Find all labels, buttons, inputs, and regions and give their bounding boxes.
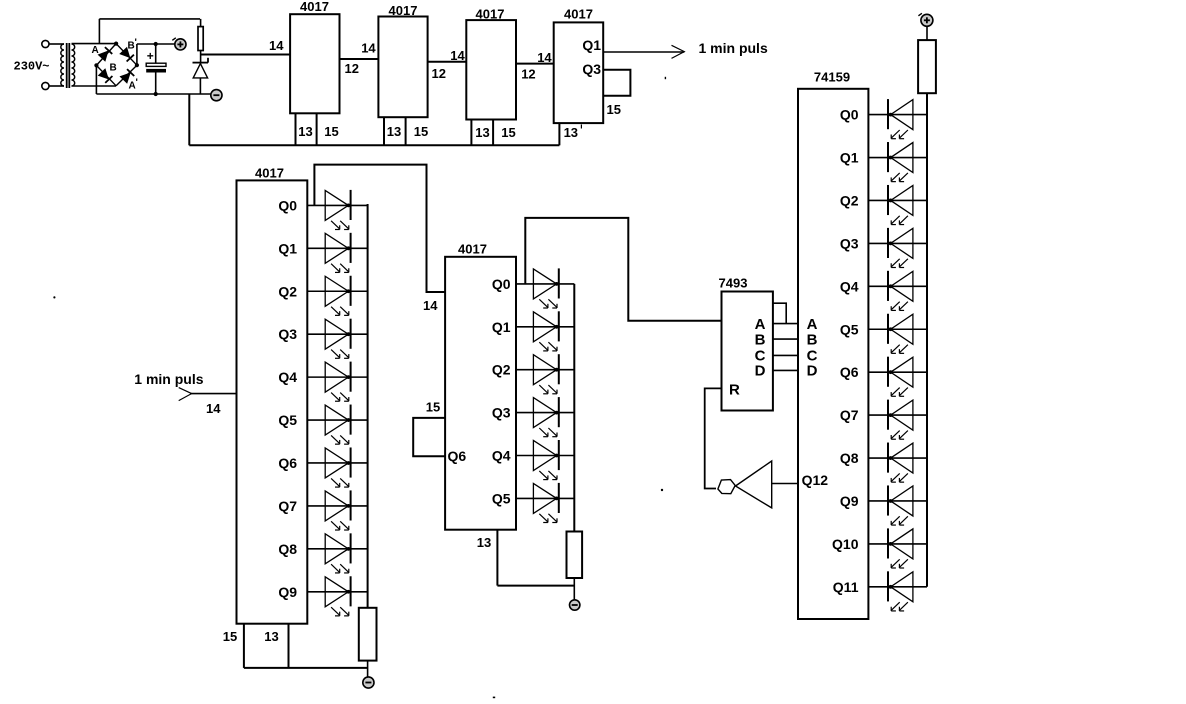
wire: [189, 144, 559, 146]
svg-text:Q2: Q2: [492, 362, 511, 378]
svg-text:Q6: Q6: [448, 448, 467, 464]
wire: [307, 462, 367, 464]
node: [154, 92, 158, 96]
svg-text:Q1: Q1: [492, 319, 511, 335]
wire: [516, 497, 574, 499]
pin 13 stub: [295, 113, 297, 145]
wire: [516, 369, 574, 371]
svg-text:Q2: Q2: [278, 283, 297, 299]
wire: [116, 44, 137, 66]
svg-text:Q4: Q4: [278, 369, 297, 385]
wire: [573, 578, 575, 600]
wire: [49, 85, 64, 87]
power +V: [918, 13, 933, 26]
wire: [98, 19, 100, 44]
svg-text:B: B: [755, 332, 766, 349]
wire: [868, 414, 927, 416]
diode A (bridge): [98, 47, 112, 61]
wire: [314, 165, 445, 292]
svg-text:13: 13: [387, 124, 401, 139]
LED D8: [325, 490, 350, 530]
wire: [773, 338, 798, 340]
LED D17: [888, 99, 913, 139]
wire: [525, 218, 721, 321]
LED D27: [888, 528, 913, 568]
LED D16: [533, 483, 558, 523]
wire: [72, 85, 117, 87]
svg-text:Q0: Q0: [492, 276, 511, 292]
wire: [773, 323, 798, 325]
wire: [116, 65, 137, 86]
zener D5: [193, 58, 209, 94]
IC U9 74159: [798, 89, 868, 619]
svg-text:A: A: [755, 316, 766, 333]
node bridge right: [135, 63, 139, 67]
svg-text:Q11: Q11: [833, 579, 859, 595]
wire: [307, 419, 367, 421]
svg-text:Q8: Q8: [840, 450, 859, 466]
LED D25: [888, 443, 913, 483]
svg-text:14: 14: [269, 38, 284, 53]
svg-text:74159: 74159: [814, 70, 850, 85]
node bridge left: [94, 63, 98, 67]
svg-text:14: 14: [206, 401, 221, 416]
wire: [188, 94, 190, 145]
IC U2 4017: [378, 17, 427, 118]
wire: [307, 290, 367, 292]
svg-text:12: 12: [521, 67, 535, 82]
svg-text:+: +: [147, 49, 154, 63]
LED D26: [888, 485, 913, 525]
bus: [367, 204, 369, 608]
svg-text:14: 14: [361, 41, 376, 56]
wire: [367, 661, 369, 678]
arrow head: [179, 388, 192, 401]
diode B (bridge): [98, 69, 112, 83]
wire: [201, 54, 291, 56]
wire: [773, 369, 798, 371]
wire: [926, 27, 928, 41]
svg-text:12: 12: [345, 61, 359, 76]
IC U1 4017: [290, 14, 339, 113]
pin 13 stub: [558, 123, 560, 145]
svg-text:': ': [136, 78, 138, 89]
IC U5 4017: [237, 180, 308, 623]
inverter U8: [718, 461, 772, 508]
wire: [413, 418, 445, 456]
wire: [516, 283, 574, 285]
LED D1: [325, 190, 350, 230]
wire: [190, 393, 237, 395]
LED D7: [325, 447, 350, 487]
LED D2: [325, 233, 350, 273]
capacitor C1: [146, 63, 166, 72]
LED D19: [888, 185, 913, 225]
svg-text:4017: 4017: [476, 7, 505, 22]
pin 13 stub: [470, 120, 472, 146]
pin 15 stub: [316, 113, 318, 145]
wire: [516, 412, 574, 414]
wire: [868, 199, 927, 201]
wire: [868, 242, 927, 244]
svg-text:Q8: Q8: [278, 541, 297, 557]
LED D21: [888, 271, 913, 311]
IC U7 7493: [722, 292, 773, 411]
LED D13: [533, 354, 558, 394]
svg-text:Q10: Q10: [832, 536, 859, 552]
power -V: [570, 600, 580, 610]
resistor R2: [359, 608, 377, 661]
wire: [705, 388, 722, 488]
wire: [868, 114, 927, 116]
wire: [868, 500, 927, 502]
wire: [516, 455, 574, 457]
svg-text:1 min puls: 1 min puls: [699, 40, 768, 56]
svg-text:4017: 4017: [564, 7, 593, 22]
LED D15: [533, 440, 558, 480]
wire: [137, 43, 175, 45]
wire: [428, 61, 467, 63]
resistor R3: [567, 532, 583, 579]
LED D12: [533, 311, 558, 351]
terminal input top: [42, 40, 49, 47]
wire: [307, 204, 367, 206]
LED D24: [888, 400, 913, 440]
svg-text:1 min puls: 1 min puls: [134, 371, 203, 387]
wire: [307, 591, 367, 593]
svg-text:Q3: Q3: [582, 61, 601, 77]
wire: [200, 19, 202, 27]
resistor R1: [198, 27, 203, 51]
wire: [49, 43, 64, 45]
svg-text:B: B: [807, 332, 818, 349]
pin 15 stub: [405, 117, 407, 145]
svg-text:Q5: Q5: [492, 490, 511, 506]
terminal input bottom: [42, 82, 49, 89]
wire: [307, 505, 367, 507]
wire: [868, 157, 927, 159]
svg-text:Q9: Q9: [278, 584, 297, 600]
svg-text:Q4: Q4: [840, 278, 859, 294]
wire: [772, 483, 798, 485]
svg-text:Q0: Q0: [278, 197, 297, 213]
svg-text:Q3: Q3: [840, 235, 859, 251]
LED D3: [325, 276, 350, 316]
svg-text:14: 14: [450, 48, 465, 63]
svg-text:15: 15: [324, 124, 338, 139]
wire: [868, 371, 927, 373]
svg-text:R: R: [729, 382, 740, 399]
wire: [307, 333, 367, 335]
wire: [773, 354, 798, 356]
svg-text:4017: 4017: [458, 242, 487, 257]
diode A' (bridge): [120, 69, 134, 83]
wire: [603, 51, 684, 53]
IC U3 4017: [466, 20, 516, 119]
wire: [868, 457, 927, 459]
power -V: [211, 90, 222, 101]
LED D6: [325, 405, 350, 445]
LED D18: [888, 142, 913, 182]
wire: [155, 73, 157, 95]
wire: [516, 326, 574, 328]
pin 13 stub: [496, 530, 498, 586]
LED D28: [888, 571, 913, 611]
transformer T1: [61, 43, 75, 88]
wire: [96, 93, 211, 95]
wire: [95, 65, 97, 94]
wire: [773, 303, 786, 323]
node: [53, 296, 55, 298]
LED D22: [888, 314, 913, 354]
svg-text:4017: 4017: [300, 0, 329, 14]
svg-text:Q6: Q6: [840, 364, 859, 380]
wire: [307, 247, 367, 249]
svg-text:Q1: Q1: [278, 240, 297, 256]
svg-text:Q2: Q2: [840, 192, 859, 208]
wire: [96, 44, 116, 66]
LED D20: [888, 228, 913, 268]
tick: [580, 125, 582, 129]
wire: [244, 667, 368, 669]
svg-text:Q0: Q0: [840, 107, 859, 123]
svg-text:D: D: [755, 363, 766, 380]
svg-text:7493: 7493: [719, 276, 748, 291]
svg-text:14: 14: [423, 298, 438, 313]
node: [154, 42, 158, 46]
svg-text:Q7: Q7: [840, 407, 859, 423]
LED D5: [325, 362, 350, 402]
LED D10: [325, 576, 350, 616]
svg-text:Q3: Q3: [492, 405, 511, 421]
svg-text:A: A: [807, 316, 818, 333]
pin 15 stub: [492, 120, 494, 146]
svg-text:Q12: Q12: [802, 472, 829, 488]
wire: [155, 44, 157, 63]
svg-text:Q5: Q5: [278, 412, 297, 428]
resistor R4: [918, 40, 936, 93]
svg-text:15: 15: [223, 629, 237, 644]
LED D4: [325, 319, 350, 359]
wire: [868, 543, 927, 545]
bus: [926, 93, 928, 587]
wire: [96, 65, 116, 85]
power -V: [363, 677, 374, 688]
svg-text:Q4: Q4: [492, 448, 511, 464]
LED D11: [533, 268, 558, 308]
svg-text:230V~: 230V~: [14, 60, 50, 74]
svg-text:D: D: [807, 363, 818, 380]
pin 13 stub: [383, 117, 385, 145]
svg-text:13: 13: [298, 124, 312, 139]
wire: [868, 285, 927, 287]
wire: [99, 18, 200, 20]
bus: [573, 284, 575, 532]
node bridge top: [114, 42, 118, 46]
LED D23: [888, 357, 913, 397]
wire: [307, 548, 367, 550]
LED D9: [325, 533, 350, 573]
svg-text:4017: 4017: [255, 166, 284, 181]
svg-text:Q3: Q3: [278, 326, 297, 342]
wire: [868, 586, 927, 588]
svg-text:B: B: [110, 63, 117, 74]
svg-text:13: 13: [475, 125, 489, 140]
wire: [340, 58, 379, 60]
wire: [200, 51, 202, 63]
power +V: [172, 38, 186, 50]
wire: [603, 70, 630, 96]
LED D14: [533, 397, 558, 437]
tick: [493, 696, 495, 698]
IC U4 4017: [554, 22, 604, 123]
svg-text:13: 13: [477, 535, 491, 550]
svg-text:Q1: Q1: [840, 150, 859, 166]
svg-text:A: A: [92, 45, 99, 56]
svg-text:15: 15: [426, 400, 440, 415]
arrow head: [672, 45, 685, 58]
svg-text:Q5: Q5: [840, 321, 859, 337]
svg-text:15: 15: [414, 124, 428, 139]
wire: [136, 44, 138, 65]
pin 15 stub: [243, 624, 245, 668]
node: [661, 489, 663, 491]
pin 13 stub: [288, 624, 290, 668]
svg-text:13: 13: [264, 629, 278, 644]
svg-text:15: 15: [607, 102, 621, 117]
svg-text:Q9: Q9: [840, 493, 859, 509]
wire: [497, 585, 574, 587]
svg-text:13: 13: [564, 125, 578, 140]
svg-text:12: 12: [432, 66, 446, 81]
svg-text:Q6: Q6: [278, 455, 297, 471]
svg-text:Q1: Q1: [582, 37, 601, 53]
wire: [868, 328, 927, 330]
wire: [72, 43, 117, 45]
svg-text:Q7: Q7: [278, 498, 297, 514]
tick: [664, 77, 666, 79]
IC U6 4017: [445, 257, 516, 530]
diode B' (bridge): [120, 47, 134, 61]
svg-text:14: 14: [537, 50, 552, 65]
wire: [307, 376, 367, 378]
wire: [516, 63, 554, 65]
svg-text:15: 15: [501, 125, 515, 140]
svg-text:4017: 4017: [389, 3, 418, 18]
